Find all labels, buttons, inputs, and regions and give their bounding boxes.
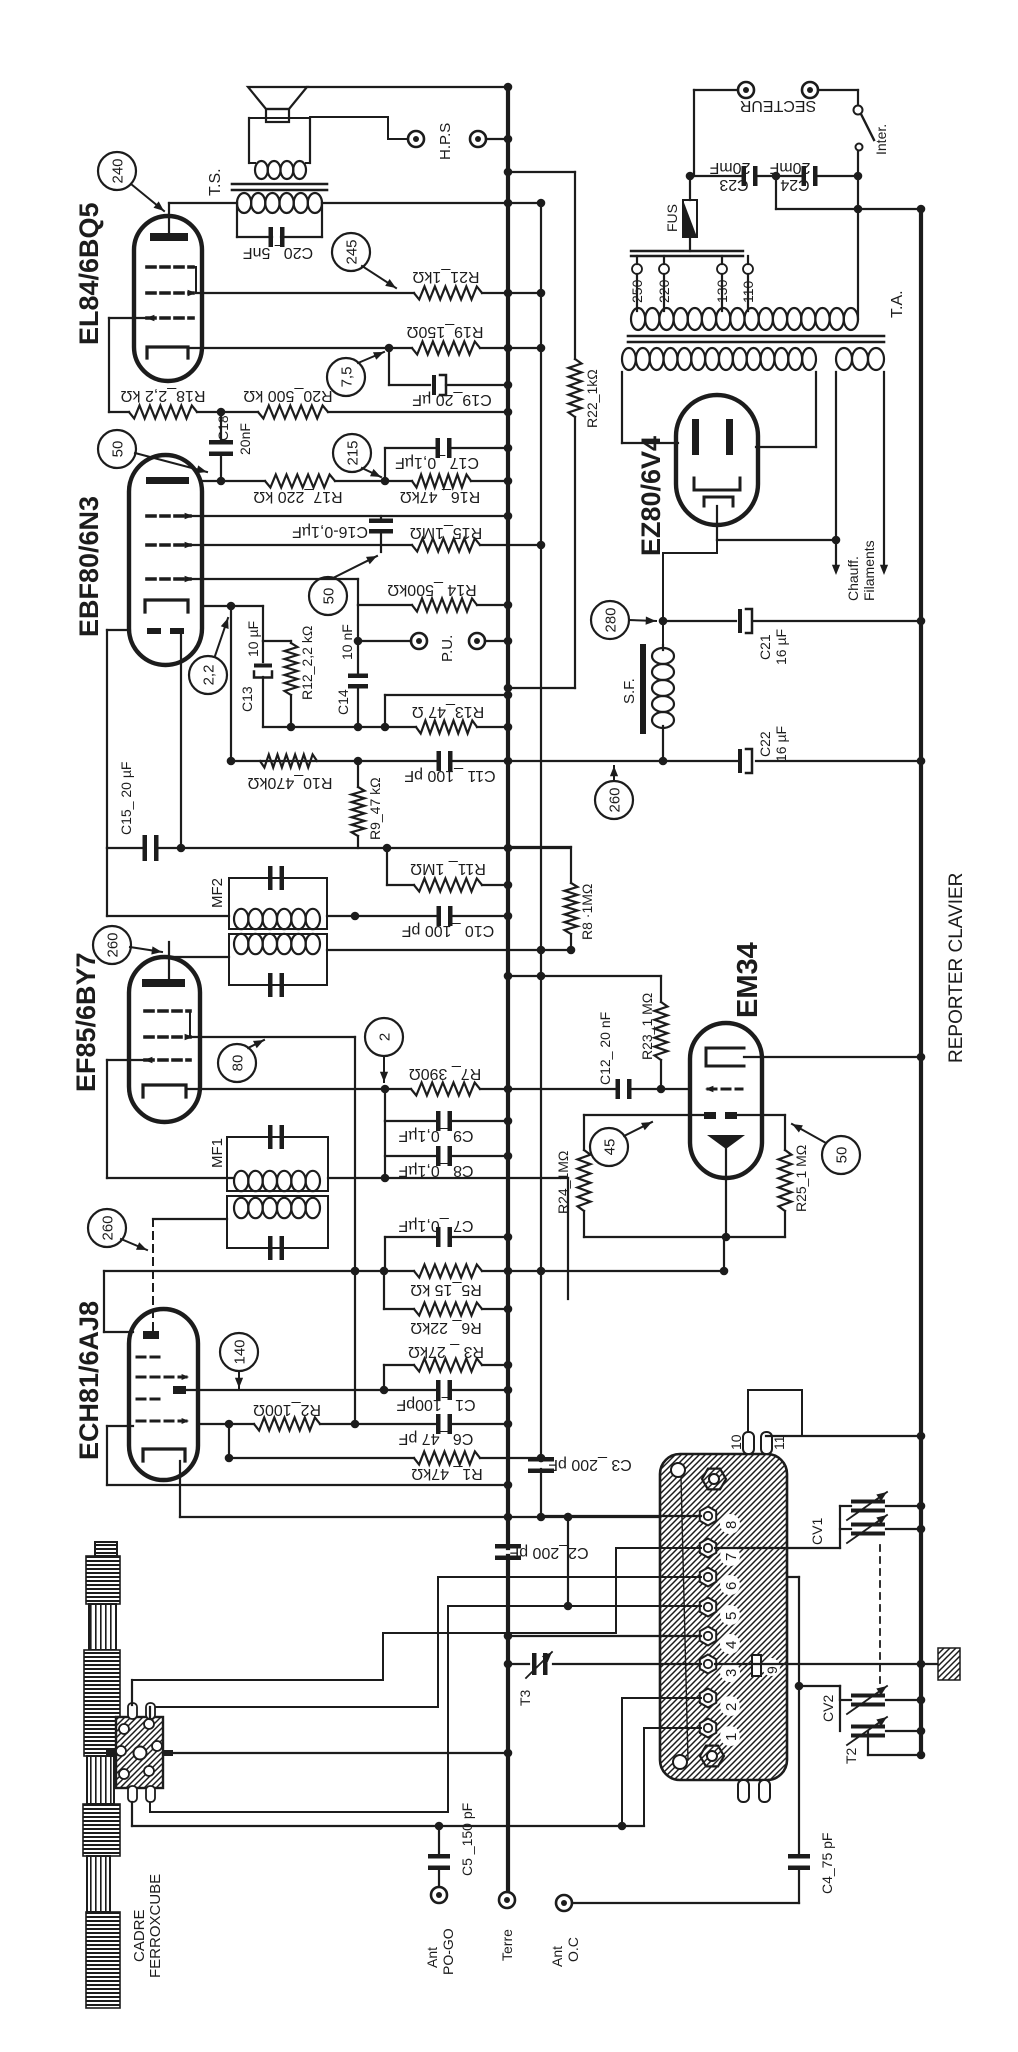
wire C8 branch — [384, 1121, 386, 1178]
wire t3 to ground — [715, 1663, 921, 1665]
svg-text:16 µF: 16 µF — [773, 629, 789, 665]
wire V3 g2 line R15 — [190, 544, 412, 546]
svg-text:C19_20 µF: C19_20 µF — [412, 391, 492, 408]
resistor R12 2,2k — [290, 641, 292, 643]
svg-text:280: 280 — [603, 607, 620, 632]
tube V1 g dashes c — [137, 1398, 162, 1401]
svg-text:R10_470kΩ: R10_470kΩ — [248, 774, 333, 791]
svg-text:C2_200 pF: C2_200 pF — [509, 1544, 588, 1561]
wire V4 cathode line — [190, 347, 412, 349]
svg-text:T2: T2 — [843, 1747, 859, 1764]
svg-text:FERROXCUBE: FERROXCUBE — [147, 1874, 164, 1978]
svg-text:EZ80/6V4: EZ80/6V4 — [636, 436, 666, 556]
wire deflector right — [737, 1114, 785, 1116]
svg-text:C9 _0,1µF: C9 _0,1µF — [398, 1127, 473, 1144]
svg-text:240: 240 — [110, 158, 127, 183]
transformer TS primary coil — [237, 193, 251, 213]
switch block nut top — [702, 1469, 726, 1490]
node 50b circle — [309, 577, 347, 615]
transformer TS secondary coil — [255, 161, 268, 179]
svg-text:110: 110 — [740, 280, 756, 303]
capacitor C2 in bus A — [495, 1544, 521, 1549]
capacitor C22 16uF — [738, 749, 742, 773]
node 2 circle — [365, 1018, 403, 1056]
wire V5 plate left — [621, 372, 623, 443]
wire t6 right — [787, 1576, 799, 1578]
svg-text:C8 _0,1µF: C8 _0,1µF — [398, 1162, 473, 1179]
svg-text:260: 260 — [105, 932, 122, 957]
tube V3 EBF80/6N3 envelope — [129, 455, 202, 665]
tube V1 ECH81/6AJ8 envelope — [129, 1309, 198, 1480]
svg-text:C4_75 pF: C4_75 pF — [819, 1833, 835, 1894]
svg-text:R18_2,2 kΩ: R18_2,2 kΩ — [121, 387, 206, 404]
svg-text:EM34: EM34 — [732, 942, 764, 1018]
terminal Ant PO-GO — [431, 1887, 447, 1903]
wire R6 line — [383, 1271, 385, 1309]
svg-text:260: 260 — [607, 787, 624, 812]
wire t7 to CV1 — [715, 1547, 840, 1549]
svg-text:C18: C18 — [215, 415, 231, 441]
svg-text:10: 10 — [728, 1434, 744, 1450]
IF transformer MF1 secondary box — [227, 1137, 328, 1191]
tube V1 g dashes a — [137, 1356, 162, 1359]
switch terminal 7 — [700, 1539, 716, 1558]
switch Inter — [854, 106, 863, 115]
capacitor C23 20mF — [742, 166, 747, 186]
switch block circle top — [671, 1463, 685, 1477]
resistor R19 150R — [412, 342, 480, 355]
node 7,5 voltage circle — [327, 358, 365, 396]
wire t8 line — [541, 1515, 701, 1517]
svg-text:T3: T3 — [517, 1689, 533, 1706]
wire osc link dashed — [152, 1219, 154, 1330]
svg-text:20mF: 20mF — [709, 159, 750, 176]
wire V1 triode plate line — [186, 1389, 436, 1391]
transformer TA primary coil — [631, 308, 645, 330]
svg-text:Ant: Ant — [424, 1947, 440, 1968]
tube V4 grid g2 dashes — [147, 291, 193, 295]
svg-text:45: 45 — [602, 1139, 619, 1156]
resistor R10 470k — [260, 755, 317, 768]
svg-text:R11_ 1MΩ: R11_ 1MΩ — [410, 860, 486, 877]
wire t6 line — [150, 1577, 701, 1707]
wire TS primary to bus — [322, 202, 541, 204]
choke SF core — [640, 644, 646, 734]
svg-text:50: 50 — [321, 588, 338, 605]
svg-text:PO-GO: PO-GO — [440, 1928, 456, 1975]
switch terminal 5 — [700, 1598, 716, 1617]
switch block inner line — [681, 1477, 688, 1760]
osc former pin top a — [128, 1703, 137, 1719]
coil MF2 primary — [234, 909, 248, 929]
terminal HPS right — [470, 131, 486, 147]
terminal Terre — [499, 1892, 515, 1908]
wire V3 cathode out — [202, 605, 231, 607]
wire V3 diode drop — [180, 634, 182, 848]
speaker frame — [249, 117, 310, 119]
wire pin10 loop — [748, 1390, 802, 1436]
resistor R14 500k — [412, 599, 477, 612]
tube V5 filament — [694, 478, 740, 490]
node 260a circle — [93, 926, 131, 964]
svg-text:245: 245 — [344, 239, 361, 264]
svg-text:EF85/6BY7: EF85/6BY7 — [71, 952, 101, 1092]
choke SF coil — [652, 648, 674, 664]
capacitor MF2 secondary tune — [268, 973, 273, 997]
wire MF2 sec to EF85 grid — [169, 956, 229, 958]
resistor R20 500k — [258, 406, 328, 419]
svg-text:4: 4 — [723, 1641, 740, 1649]
svg-text:20mF: 20mF — [769, 159, 810, 176]
tube V2 cathode — [143, 1085, 186, 1097]
wire C13 R12 top — [263, 640, 291, 642]
svg-text:R2_100Ω: R2_100Ω — [253, 1401, 321, 1418]
wire sec ends — [249, 162, 255, 164]
svg-text:CV2: CV2 — [820, 1695, 836, 1722]
wire V5 cathode out — [716, 506, 718, 540]
transformer TA heater winding — [836, 348, 852, 370]
capacitor C7 — [385, 1236, 437, 1238]
wire t1 line — [644, 1728, 701, 1826]
tube V5 plates — [692, 419, 699, 455]
terminal PU right — [469, 633, 485, 649]
antenna rod seg4 — [86, 1912, 120, 2008]
resistor R9 47k — [357, 761, 359, 787]
capacitor C5 150pF — [438, 1826, 440, 1855]
capacitor C17 — [436, 438, 441, 458]
wire MF1 sec out — [328, 1177, 568, 1179]
antenna coil seg1 — [89, 1604, 116, 1650]
wire t4 line — [508, 1635, 701, 1637]
svg-text:2: 2 — [377, 1033, 394, 1041]
capacitor C3 in bus B — [528, 1457, 554, 1462]
wire leader 260b — [121, 1239, 147, 1250]
transformer TA tap bar — [631, 250, 743, 252]
svg-text:16 µF: 16 µF — [773, 726, 789, 762]
terminal Ant OC — [556, 1895, 572, 1911]
switch terminal 2 — [700, 1689, 716, 1708]
capacitor C4 75pF — [788, 1854, 810, 1859]
svg-text:R12_2,2 kΩ: R12_2,2 kΩ — [299, 626, 315, 700]
wire leader 2 — [383, 1057, 385, 1082]
tube V4 grid g3 dashes — [147, 265, 193, 269]
antenna coil seg2 — [87, 1756, 114, 1804]
wire heater left — [835, 372, 837, 568]
svg-text:R24_1MΩ: R24_1MΩ — [555, 1151, 571, 1214]
osc former pin bottom b — [146, 1786, 155, 1802]
wire V3 plate line — [202, 480, 265, 482]
resistor R11 zigzag — [414, 879, 482, 892]
svg-text:R1_ 47kΩ: R1_ 47kΩ — [411, 1465, 483, 1482]
resistor R25 1M — [784, 1115, 786, 1150]
wire heater right — [883, 372, 885, 568]
wire mains cap line — [694, 175, 742, 177]
switch block nut bottom — [700, 1746, 724, 1767]
fuse FUS — [689, 176, 691, 200]
wire MF2 feed — [106, 848, 108, 916]
wire HPS left — [310, 117, 408, 139]
tube V5 EZ80/6V4 envelope — [676, 395, 758, 525]
wire switch down — [857, 151, 859, 319]
svg-text:P.U.: P.U. — [439, 635, 456, 662]
wire V2 g3 line — [107, 1059, 145, 1061]
svg-text:10 nF: 10 nF — [339, 624, 355, 660]
tube V6 deflectors — [704, 1112, 716, 1119]
wire pin11 to bus C — [766, 1435, 921, 1437]
svg-text:50: 50 — [110, 441, 127, 458]
wire leader 280 — [629, 620, 656, 621]
tube V3 plate bar — [146, 477, 189, 484]
resistor R1 47k — [414, 1452, 480, 1465]
svg-text:130: 130 — [714, 279, 730, 303]
tube V1 cathode — [143, 1449, 185, 1461]
svg-text:7,5: 7,5 — [339, 367, 356, 388]
switch pin bottom b — [759, 1780, 770, 1802]
svg-text:5: 5 — [723, 1612, 740, 1620]
svg-text:C14: C14 — [335, 689, 351, 715]
wire leader 2,2 — [215, 618, 228, 656]
tube V4 cathode — [147, 347, 188, 358]
tap 130 — [721, 256, 723, 264]
resistor R7 390R — [411, 1083, 480, 1096]
svg-text:R5_15 kΩ: R5_15 kΩ — [410, 1281, 482, 1298]
resistor R21 1k — [414, 287, 482, 300]
tube V3 cathode — [145, 600, 188, 612]
tube V2 g2 dashes — [145, 1035, 190, 1039]
svg-text:R14 _500kΩ: R14 _500kΩ — [387, 581, 476, 598]
wire t8-t5 tie — [567, 1517, 569, 1606]
wire t7 line — [132, 1548, 701, 1680]
tap 110 — [747, 256, 749, 264]
svg-text:T.A.: T.A. — [889, 290, 906, 318]
svg-text:6: 6 — [723, 1582, 740, 1590]
wire bus A (HT line vertical x=508) — [506, 87, 510, 1548]
trimmer CV2 a — [886, 1699, 921, 1701]
wire HPS right to bus — [486, 138, 508, 140]
wire leader 7,5 — [358, 352, 384, 363]
svg-text:C12_ 20 nF: C12_ 20 nF — [597, 1012, 613, 1085]
resistor R22 1k branch — [508, 171, 575, 173]
wire leader 50c — [792, 1124, 826, 1143]
node 140 circle — [220, 1333, 258, 1371]
wire t3 line — [508, 1663, 529, 1665]
antenna coil seg3 — [87, 1856, 110, 1912]
ground symbol — [938, 1648, 960, 1680]
node 45 circle — [590, 1128, 628, 1166]
svg-text:C7 _0,1µF: C7 _0,1µF — [398, 1217, 473, 1234]
svg-text:R21_1kΩ: R21_1kΩ — [412, 268, 479, 285]
resistor R5 15k — [414, 1265, 482, 1278]
wire C17 branch — [384, 448, 386, 481]
wire V2 cathode line — [186, 1088, 411, 1090]
capacitor C21 16uF — [738, 609, 742, 633]
node 260c circle — [595, 781, 633, 819]
wire C9 branch — [384, 1089, 386, 1121]
node 215 voltage circle — [333, 434, 371, 472]
tube V3 diode plates — [147, 628, 161, 634]
capacitor C1 100pF — [436, 1380, 441, 1400]
svg-text:250: 250 — [629, 279, 645, 303]
capacitor C10 100pF — [437, 906, 442, 926]
wire leader 140 — [238, 1372, 240, 1388]
svg-text:Filaments: Filaments — [861, 540, 877, 601]
tube V3 g3 dashes — [147, 577, 190, 581]
wire bottom rail 727 — [263, 726, 416, 728]
svg-text:O.C: O.C — [565, 1937, 581, 1962]
capacitor C18 coupling — [220, 412, 222, 441]
wire leader 45 — [624, 1122, 652, 1136]
switch block circle bottom — [673, 1755, 687, 1769]
terminal SECTEUR left — [738, 82, 754, 98]
wire V3 left drop — [107, 629, 129, 631]
wire leader 50b — [333, 556, 377, 578]
wire V1 left g line — [103, 1271, 105, 1332]
tube V2 g1 dashes — [145, 1009, 190, 1013]
svg-text:C20_ 5nF: C20_ 5nF — [243, 244, 313, 261]
wire V6 to bus C — [744, 1056, 921, 1058]
wire bus B (AVC line x=541) — [540, 203, 542, 1461]
svg-text:R15_1MΩ: R15_1MΩ — [410, 524, 482, 541]
wire V1 osc g line — [107, 1425, 133, 1427]
svg-text:Chauff.: Chauff. — [845, 556, 861, 601]
resistor R11 1M — [386, 848, 388, 885]
svg-text:C16-0,1µF: C16-0,1µF — [292, 523, 368, 540]
tube V4 grid g1 dashes — [147, 316, 193, 320]
wire R1 line — [228, 1424, 230, 1458]
svg-text:Ant: Ant — [549, 1946, 565, 1967]
svg-text:C13: C13 — [239, 686, 255, 712]
osc former pin top b — [146, 1703, 155, 1719]
switch terminal 1 — [700, 1719, 716, 1738]
svg-text:R16_ 47kΩ: R16_ 47kΩ — [400, 488, 480, 505]
switch terminal 3 — [700, 1655, 716, 1674]
svg-text:R22_1kΩ: R22_1kΩ — [584, 369, 600, 428]
wire deflector left — [584, 1114, 704, 1116]
osc former center pin — [106, 1750, 116, 1756]
switch terminal 4 — [700, 1627, 716, 1646]
svg-text:R7_ 390Ω: R7_ 390Ω — [409, 1065, 481, 1082]
capacitor C19 20uF — [432, 375, 436, 395]
osc former pin bottom a — [128, 1786, 137, 1802]
svg-text:10 µF: 10 µF — [245, 621, 261, 657]
svg-text:20nF: 20nF — [237, 423, 253, 455]
svg-text:80: 80 — [230, 1055, 247, 1072]
resistor R2 100R — [254, 1418, 320, 1431]
terminal SECTEUR right — [802, 82, 818, 98]
wire V4 plate to TS primary — [169, 202, 237, 204]
tube V2 EF85/6BY7 envelope — [129, 957, 200, 1122]
svg-text:C22: C22 — [757, 731, 773, 757]
svg-text:2: 2 — [723, 1703, 740, 1711]
wire line 1517 — [180, 1516, 708, 1518]
wire V4 plate lead — [168, 203, 170, 233]
resistor R15 1M — [412, 539, 480, 552]
wire speaker to HT — [307, 86, 508, 88]
svg-text:7: 7 — [723, 1553, 740, 1561]
svg-text:CV1: CV1 — [809, 1518, 825, 1545]
wire V5 plate right — [815, 372, 817, 447]
wire CV2 to t1 net — [799, 1685, 840, 1687]
wire PU line — [357, 605, 359, 641]
svg-text:C3 _200 pF: C3 _200 pF — [548, 1456, 632, 1473]
wire C21 line — [663, 620, 736, 622]
svg-text:1: 1 — [723, 1733, 740, 1741]
wire R2 line — [198, 1423, 254, 1425]
svg-text:FUS: FUS — [664, 204, 680, 232]
wire leader 80 — [248, 1040, 264, 1048]
svg-text:R19_150Ω: R19_150Ω — [407, 323, 484, 340]
wire V1 cathode line — [179, 1461, 181, 1517]
IF transformer MF2 primary box — [229, 878, 327, 929]
tube V2 top cap bar — [142, 979, 185, 987]
wire to bus C — [775, 176, 777, 209]
svg-text:215: 215 — [345, 440, 362, 465]
resistor R23 1M — [508, 975, 661, 977]
svg-text:Terre: Terre — [499, 1929, 515, 1961]
wire SF ends — [662, 645, 664, 650]
svg-text:CADRE: CADRE — [131, 1909, 148, 1962]
osc former lugs — [119, 1724, 129, 1734]
wire Ant OC to C4 — [573, 1902, 799, 1904]
svg-text:REPORTER CLAVIER: REPORTER CLAVIER — [946, 873, 967, 1063]
tube V1 g dashes d — [137, 1420, 186, 1423]
tube V4 plate bar — [150, 233, 188, 241]
wire line 1485 — [107, 1484, 508, 1486]
capacitor C16 — [380, 516, 382, 520]
antenna rod seg1 — [86, 1556, 120, 1604]
wire R14 line — [358, 604, 412, 606]
wire C19 branch — [388, 348, 390, 385]
tube V6 target — [707, 1135, 745, 1149]
svg-text:C21: C21 — [757, 634, 773, 660]
capacitor MF2 primary tune — [268, 866, 273, 890]
svg-text:C24: C24 — [780, 176, 809, 193]
resistor R8 1M — [508, 846, 571, 848]
svg-text:50: 50 — [834, 1147, 851, 1164]
svg-text:C17 _0,1µF: C17 _0,1µF — [395, 454, 479, 471]
resistor R3 27k — [414, 1359, 482, 1372]
node 245 voltage circle — [332, 233, 370, 271]
wire V3 g1 line — [190, 515, 508, 517]
wire MF1 pri in — [153, 1218, 227, 1220]
tube V3 g1 dashes — [147, 514, 190, 518]
tube V6 grid dashes — [708, 1088, 742, 1091]
svg-text:MF1: MF1 — [209, 1138, 226, 1168]
svg-text:C6 _47 pF: C6 _47 pF — [398, 1430, 473, 1447]
capacitor C14 10nF — [357, 641, 359, 675]
switch terminal 6 — [700, 1568, 716, 1587]
svg-text:R3 _ 27kΩ: R3 _ 27kΩ — [408, 1343, 484, 1360]
svg-text:3: 3 — [723, 1669, 740, 1677]
svg-text:8: 8 — [723, 1521, 740, 1529]
wire line E — [132, 1825, 644, 1827]
resistor R13 47R — [416, 721, 477, 734]
svg-text:MF2: MF2 — [209, 878, 226, 908]
node 50 circle (EBF80 plate) — [98, 430, 136, 468]
coil MF2 secondary — [234, 934, 248, 954]
svg-text:R6_ 22kΩ: R6_ 22kΩ — [410, 1319, 482, 1336]
wire long line 1271 — [104, 1270, 414, 1272]
coil MF1 primary — [234, 1198, 248, 1218]
wire center pin to bus A — [170, 1752, 508, 1754]
antenna rod seg2 — [84, 1650, 120, 1756]
wire bus C (mains/ground x=921) — [919, 209, 923, 1755]
terminal HPS left — [408, 131, 424, 147]
capacitor MF1 sec tune — [268, 1125, 273, 1149]
wire t2 line — [622, 1698, 701, 1826]
wire AF line 761 — [231, 760, 436, 762]
wire leader 260c — [613, 766, 615, 781]
